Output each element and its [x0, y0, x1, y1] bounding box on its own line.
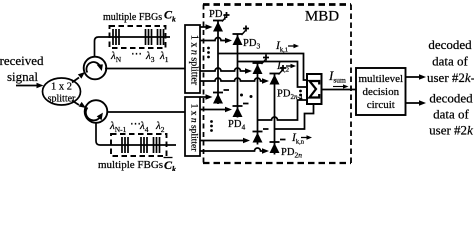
svg-text:splitter: splitter — [48, 94, 76, 105]
svg-text:data of: data of — [432, 54, 468, 69]
svg-text:multiple FBGs: multiple FBGs — [98, 159, 163, 171]
svg-text:Ck: Ck — [164, 158, 176, 171]
svg-text:user #2k-1: user #2k-1 — [427, 70, 474, 85]
svg-text:λ2: λ2 — [155, 120, 165, 134]
svg-text:PD3: PD3 — [243, 38, 260, 51]
svg-text:MBD: MBD — [305, 9, 339, 25]
svg-text:1 x n splitter: 1 x n splitter — [189, 104, 199, 153]
svg-text:1 x 2: 1 x 2 — [51, 82, 72, 93]
svg-text:PD2n: PD2n — [281, 147, 302, 160]
svg-text:Ik,1: Ik,1 — [275, 40, 288, 54]
svg-text:λ3: λ3 — [145, 50, 155, 64]
svg-text:λ4: λ4 — [139, 120, 149, 134]
svg-text:circuit: circuit — [367, 99, 395, 111]
svg-text:λ1: λ1 — [159, 50, 169, 64]
svg-text:Ck: Ck — [164, 8, 176, 24]
svg-text:λN: λN — [110, 50, 122, 64]
svg-text:data of: data of — [433, 107, 469, 122]
svg-text:⋯: ⋯ — [131, 48, 142, 60]
svg-text:multilevel: multilevel — [358, 73, 403, 85]
svg-text:1 x n splitter: 1 x n splitter — [189, 35, 200, 86]
svg-text:signal: signal — [7, 69, 38, 84]
svg-text:λN-1: λN-1 — [109, 120, 127, 134]
svg-text:user #2k: user #2k — [429, 123, 473, 138]
svg-text:PD4: PD4 — [228, 119, 245, 132]
svg-text:decision: decision — [362, 86, 399, 98]
svg-text:decoded: decoded — [428, 37, 472, 52]
svg-text:multiple FBGs: multiple FBGs — [103, 12, 162, 23]
svg-text:Ik,n: Ik,n — [291, 132, 305, 146]
svg-text:received: received — [0, 53, 44, 68]
svg-text:PD1: PD1 — [209, 9, 226, 22]
svg-text:Isum: Isum — [328, 68, 346, 85]
svg-text:decoded: decoded — [429, 91, 473, 106]
